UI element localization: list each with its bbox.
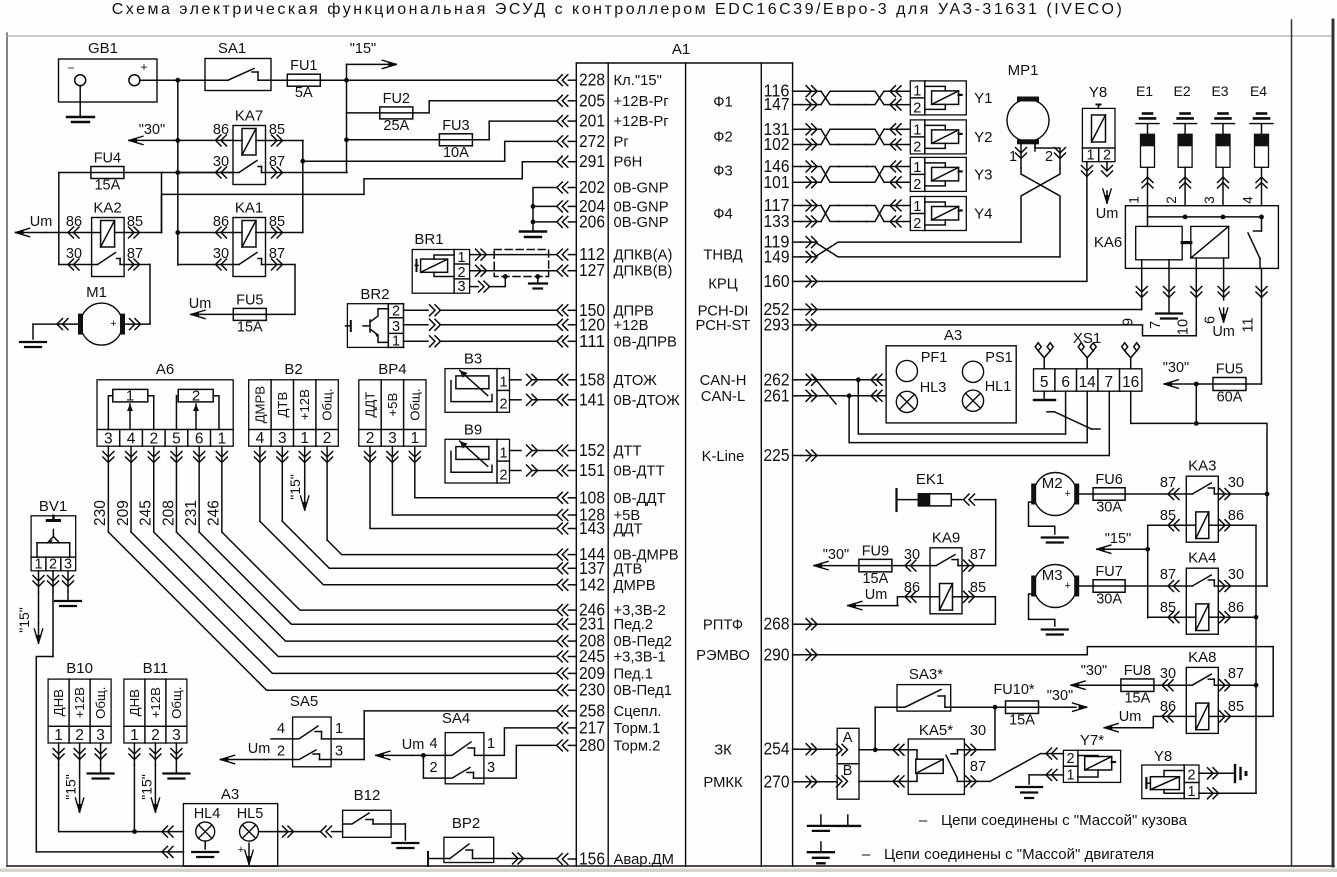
svg-text:E4: E4 (1250, 83, 1267, 99)
svg-text:15А: 15А (862, 571, 888, 587)
svg-text:152: 152 (579, 440, 605, 460)
svg-text:86: 86 (1160, 699, 1176, 715)
svg-text:2: 2 (429, 760, 437, 776)
svg-text:1: 1 (54, 727, 63, 744)
svg-text:87: 87 (970, 759, 986, 775)
svg-text:Общ.: Общ. (320, 388, 335, 420)
svg-text:143: 143 (579, 518, 605, 538)
svg-text:Кл."15": Кл."15" (614, 73, 662, 89)
svg-text:GB1: GB1 (88, 40, 118, 57)
svg-text:FU3: FU3 (442, 118, 469, 134)
svg-text:SA1: SA1 (218, 40, 246, 57)
svg-text:1: 1 (457, 250, 465, 266)
svg-text:"30": "30" (1081, 663, 1107, 679)
svg-text:206: 206 (579, 211, 605, 231)
svg-text:РСН-ST: РСН-ST (696, 318, 751, 334)
svg-text:1: 1 (410, 430, 419, 447)
svg-text:E3: E3 (1211, 83, 1228, 99)
svg-text:"15": "15" (350, 41, 376, 57)
svg-text:102: 102 (764, 134, 790, 154)
svg-text:270: 270 (764, 771, 790, 791)
svg-text:1: 1 (1066, 768, 1074, 784)
svg-text:FU5: FU5 (236, 292, 263, 308)
svg-text:XS1: XS1 (1073, 330, 1101, 347)
svg-text:3: 3 (1202, 196, 1217, 204)
svg-text:KA7: KA7 (235, 108, 263, 125)
svg-text:КРЦ: КРЦ (708, 277, 737, 293)
svg-text:147: 147 (764, 94, 790, 114)
svg-text:ТНВД: ТНВД (703, 248, 742, 264)
svg-text:141: 141 (579, 389, 605, 409)
svg-text:87: 87 (1160, 567, 1176, 583)
svg-text:M1: M1 (86, 284, 107, 301)
svg-text:BR2: BR2 (360, 286, 389, 303)
svg-text:MP1: MP1 (1008, 62, 1039, 79)
svg-text:268: 268 (764, 614, 790, 634)
svg-text:261: 261 (764, 385, 790, 405)
svg-text:25А: 25А (383, 118, 409, 134)
svg-text:245: 245 (138, 500, 155, 526)
svg-text:3: 3 (104, 431, 113, 448)
svg-text:Um: Um (1212, 324, 1235, 340)
svg-text:Сцепл.: Сцепл. (614, 704, 662, 720)
svg-text:+12В: +12В (614, 318, 649, 334)
svg-text:158: 158 (579, 369, 605, 389)
svg-text:SA3*: SA3* (909, 666, 943, 683)
svg-text:228: 228 (579, 70, 605, 90)
svg-text:"30": "30" (823, 547, 849, 563)
svg-text:2: 2 (149, 431, 158, 448)
svg-text:142: 142 (579, 574, 605, 594)
svg-text:KA8: KA8 (1188, 649, 1216, 666)
svg-text:BP2: BP2 (452, 815, 480, 832)
svg-text:HL4: HL4 (194, 806, 221, 822)
svg-text:ДДТ: ДДТ (363, 392, 378, 418)
svg-text:CAN-L: CAN-L (701, 389, 745, 405)
svg-text:B2: B2 (284, 361, 302, 378)
svg-text:230: 230 (92, 500, 109, 526)
svg-text:ДНВ: ДНВ (51, 689, 66, 716)
svg-text:РПТФ: РПТФ (703, 618, 743, 634)
svg-text:Um: Um (1096, 206, 1119, 222)
svg-text:6: 6 (195, 431, 204, 448)
svg-text:4: 4 (429, 736, 437, 752)
svg-text:Um: Um (189, 296, 212, 312)
svg-text:K-Line: K-Line (702, 449, 745, 465)
svg-text:ДПКВ(А): ДПКВ(А) (614, 248, 673, 264)
svg-text:3: 3 (278, 430, 287, 447)
svg-text:2: 2 (499, 397, 507, 413)
svg-text:2: 2 (913, 177, 921, 193)
svg-text:Общ.: Общ. (93, 687, 108, 719)
svg-text:87: 87 (970, 547, 986, 563)
svg-text:A6: A6 (156, 361, 174, 378)
svg-text:230: 230 (579, 680, 605, 700)
svg-text:Пед.1: Пед.1 (614, 666, 654, 682)
svg-text:0В-Пед2: 0В-Пед2 (614, 634, 672, 650)
svg-text:ДМРВ: ДМРВ (252, 386, 267, 424)
svg-text:2: 2 (323, 430, 332, 447)
svg-text:"15": "15" (63, 774, 79, 800)
svg-text:FU4: FU4 (94, 151, 121, 167)
svg-text:11: 11 (1241, 317, 1257, 332)
svg-text:+: + (1064, 488, 1070, 500)
svg-text:291: 291 (579, 151, 605, 171)
svg-text:4: 4 (256, 430, 265, 447)
svg-text:KA5*: KA5* (919, 722, 953, 739)
svg-text:PS1: PS1 (985, 350, 1012, 366)
svg-text:2: 2 (499, 467, 507, 483)
svg-text:KA9: KA9 (932, 529, 960, 546)
svg-text:Y7*: Y7* (1080, 732, 1104, 749)
svg-text:Рг: Рг (614, 134, 629, 150)
svg-text:0В-ДПРВ: 0В-ДПРВ (614, 334, 678, 350)
svg-text:Um: Um (865, 587, 888, 603)
svg-text:E1: E1 (1136, 83, 1153, 99)
svg-text:3: 3 (457, 279, 465, 295)
svg-text:KA3: KA3 (1188, 458, 1216, 475)
svg-text:30: 30 (970, 723, 986, 739)
svg-text:BR1: BR1 (414, 231, 443, 248)
svg-text:3: 3 (96, 727, 105, 744)
svg-text:2: 2 (913, 139, 921, 155)
svg-text:15А: 15А (1009, 712, 1035, 728)
svg-text:202: 202 (579, 177, 605, 197)
svg-text:+12В: +12В (297, 389, 312, 420)
svg-text:15А: 15А (1124, 690, 1150, 706)
svg-text:Торм.1: Торм.1 (614, 721, 661, 737)
svg-text:3: 3 (388, 430, 397, 447)
svg-text:0В-GNP: 0В-GNP (614, 181, 669, 197)
svg-text:Um: Um (248, 741, 271, 757)
svg-text:FU6: FU6 (1095, 472, 1122, 488)
svg-text:246: 246 (206, 500, 223, 526)
svg-text:5: 5 (172, 431, 181, 448)
svg-text:2: 2 (151, 727, 160, 744)
svg-text:FU9: FU9 (862, 543, 889, 559)
svg-text:30: 30 (66, 246, 82, 262)
svg-text:+12В: +12В (148, 687, 163, 718)
svg-text:1: 1 (1187, 784, 1195, 800)
svg-text:1: 1 (1009, 149, 1017, 165)
svg-text:M3: M3 (1042, 567, 1063, 584)
svg-text:"15": "15" (138, 774, 154, 800)
svg-text:B3: B3 (464, 351, 482, 368)
svg-text:Ф2: Ф2 (713, 130, 732, 146)
svg-text:87: 87 (1228, 666, 1244, 682)
svg-text:208: 208 (160, 500, 177, 526)
svg-text:Схема электрическая функцион: Схема электрическая функциональная ЭСУД … (112, 1, 1125, 18)
svg-text:PF1: PF1 (921, 350, 948, 366)
svg-text:101: 101 (764, 172, 790, 192)
svg-text:+: + (1064, 580, 1070, 592)
svg-text:1: 1 (218, 431, 227, 448)
svg-text:Y2: Y2 (974, 129, 992, 146)
svg-text:225: 225 (764, 445, 790, 465)
svg-text:E2: E2 (1174, 83, 1191, 99)
svg-text:SA5: SA5 (290, 693, 318, 710)
svg-text:2: 2 (75, 727, 84, 744)
svg-text:HL5: HL5 (237, 806, 264, 822)
svg-text:Торм.2: Торм.2 (614, 738, 661, 754)
svg-text:"15": "15" (1105, 531, 1131, 547)
svg-text:+5В: +5В (385, 393, 400, 417)
svg-text:BP4: BP4 (378, 361, 406, 378)
svg-text:"30": "30" (139, 122, 165, 138)
svg-text:3: 3 (172, 727, 181, 744)
svg-text:ЗК: ЗК (714, 743, 732, 759)
svg-text:+: + (140, 60, 147, 74)
svg-text:86: 86 (1228, 508, 1244, 524)
svg-text:FU7: FU7 (1095, 564, 1122, 580)
svg-text:"30": "30" (1047, 688, 1073, 704)
svg-text:1: 1 (126, 388, 134, 405)
svg-text:2: 2 (1164, 196, 1179, 204)
svg-text:KA4: KA4 (1188, 550, 1216, 567)
svg-text:1: 1 (913, 83, 921, 99)
svg-text:РЭМВО: РЭМВО (696, 648, 750, 664)
svg-text:86: 86 (904, 580, 920, 596)
svg-text:2: 2 (1187, 768, 1195, 784)
svg-text:4: 4 (1241, 196, 1256, 204)
svg-text:ДПКВ(В): ДПКВ(В) (614, 264, 673, 280)
svg-text:FU8: FU8 (1124, 663, 1151, 679)
svg-text:2: 2 (1066, 751, 1074, 767)
svg-text:2: 2 (192, 388, 200, 405)
svg-text:KA1: KA1 (235, 200, 263, 217)
svg-text:160: 160 (764, 271, 790, 291)
svg-text:2: 2 (913, 100, 921, 116)
svg-text:156: 156 (579, 849, 605, 869)
svg-text:0В-ДТОЖ: 0В-ДТОЖ (614, 393, 681, 409)
svg-text:7: 7 (1104, 374, 1113, 391)
svg-text:ДТОЖ: ДТОЖ (614, 373, 658, 389)
svg-text:Um: Um (1119, 709, 1142, 725)
svg-text:85: 85 (1160, 508, 1176, 524)
svg-text:А: А (843, 730, 853, 746)
svg-text:Y1: Y1 (974, 90, 992, 107)
svg-text:ДНВ: ДНВ (127, 689, 142, 716)
svg-text:231: 231 (183, 500, 200, 526)
svg-text:+12В-Рг: +12В-Рг (614, 114, 669, 130)
svg-text:2: 2 (392, 304, 400, 320)
svg-text:4: 4 (277, 721, 285, 737)
svg-text:A3: A3 (221, 786, 239, 803)
svg-text:A1: A1 (672, 41, 690, 58)
svg-text:"15": "15" (16, 607, 32, 633)
svg-text:Ф3: Ф3 (713, 164, 732, 180)
svg-text:15А: 15А (94, 178, 120, 194)
svg-text:3: 3 (335, 744, 343, 760)
svg-text:280: 280 (579, 735, 605, 755)
svg-text:0В-GNP: 0В-GNP (614, 215, 669, 231)
svg-text:B12: B12 (354, 787, 381, 804)
svg-text:Ф1: Ф1 (713, 95, 732, 111)
svg-text:FU2: FU2 (383, 91, 410, 107)
svg-text:ДМРВ: ДМРВ (614, 578, 656, 594)
svg-text:149: 149 (764, 246, 790, 266)
svg-text:ДТВ: ДТВ (275, 392, 290, 418)
svg-text:16: 16 (1122, 374, 1139, 391)
svg-text:86: 86 (66, 214, 82, 230)
svg-text:Um: Um (30, 214, 53, 230)
svg-text:6: 6 (1061, 374, 1070, 391)
svg-text:111: 111 (579, 331, 605, 351)
svg-text:2: 2 (913, 216, 921, 232)
svg-text:Y3: Y3 (974, 166, 992, 183)
svg-text:Y8: Y8 (1154, 748, 1172, 765)
svg-text:1: 1 (392, 334, 400, 350)
svg-text:+: + (110, 318, 116, 330)
svg-text:HL1: HL1 (985, 379, 1012, 395)
svg-text:85: 85 (1228, 699, 1244, 715)
svg-text:+12В: +12В (72, 687, 87, 718)
svg-text:SA4: SA4 (442, 710, 470, 727)
svg-text:+12В-Рг: +12В-Рг (614, 94, 669, 110)
svg-text:209: 209 (115, 500, 132, 526)
svg-text:1: 1 (499, 375, 507, 391)
svg-text:Y8: Y8 (1089, 84, 1107, 101)
svg-text:РМКК: РМКК (703, 775, 743, 791)
svg-text:Цепи соединены с "Массой" кузо: Цепи соединены с "Массой" кузова (941, 812, 1188, 829)
svg-text:–: – (862, 846, 871, 863)
svg-text:5А: 5А (295, 85, 313, 101)
svg-text:85: 85 (1160, 600, 1176, 616)
svg-text:0В-GNP: 0В-GNP (614, 199, 669, 215)
svg-text:−: − (67, 61, 74, 75)
svg-text:–: – (919, 812, 928, 829)
svg-text:Авар.ДМ: Авар.ДМ (614, 852, 674, 868)
svg-text:Ф4: Ф4 (713, 207, 732, 223)
svg-text:FU5: FU5 (1216, 362, 1243, 378)
svg-text:A3: A3 (944, 327, 962, 344)
svg-text:B11: B11 (143, 660, 169, 677)
svg-text:FU1: FU1 (290, 58, 317, 74)
svg-text:30А: 30А (1096, 499, 1122, 515)
svg-text:15А: 15А (237, 319, 263, 335)
svg-text:Р6Н: Р6Н (614, 155, 643, 171)
svg-text:87: 87 (1160, 475, 1176, 491)
svg-text:2: 2 (1045, 149, 1053, 165)
svg-text:1: 1 (487, 736, 495, 752)
svg-text:Общ.: Общ. (407, 388, 422, 420)
svg-text:FU10*: FU10* (993, 682, 1034, 698)
svg-text:CAN-H: CAN-H (700, 373, 747, 389)
svg-text:30А: 30А (1096, 591, 1122, 607)
svg-text:7: 7 (1148, 321, 1164, 329)
svg-text:1: 1 (130, 727, 139, 744)
svg-text:133: 133 (764, 211, 790, 231)
svg-text:272: 272 (579, 131, 605, 151)
svg-text:2: 2 (277, 744, 285, 760)
svg-text:14: 14 (1079, 374, 1097, 391)
svg-text:4: 4 (127, 431, 136, 448)
svg-text:86: 86 (1228, 600, 1244, 616)
svg-text:Цепи соединены с "Массой" двиг: Цепи соединены с "Массой" двигателя (884, 846, 1154, 863)
svg-text:HL3: HL3 (920, 380, 947, 396)
svg-text:2: 2 (366, 430, 375, 447)
svg-text:M2: M2 (1042, 475, 1063, 492)
svg-text:1: 1 (300, 430, 309, 447)
svg-text:60А: 60А (1217, 390, 1243, 406)
svg-text:3: 3 (487, 760, 495, 776)
svg-text:201: 201 (579, 111, 605, 131)
svg-text:+: + (238, 844, 244, 856)
svg-text:"30": "30" (1163, 360, 1189, 376)
svg-text:254: 254 (764, 739, 790, 759)
svg-text:10А: 10А (443, 145, 469, 161)
svg-text:127: 127 (579, 260, 605, 280)
svg-text:0В-ДТТ: 0В-ДТТ (614, 464, 665, 480)
svg-text:1: 1 (499, 445, 507, 461)
svg-text:6: 6 (1203, 316, 1219, 324)
svg-text:1: 1 (913, 199, 921, 215)
svg-text:+3,3В-1: +3,3В-1 (614, 650, 666, 666)
svg-text:1: 1 (335, 721, 343, 737)
svg-text:30: 30 (1228, 475, 1244, 491)
svg-text:KA2: KA2 (93, 200, 121, 217)
svg-text:290: 290 (764, 644, 790, 664)
svg-text:151: 151 (579, 460, 605, 480)
svg-text:Пед.2: Пед.2 (614, 617, 654, 633)
svg-text:B10: B10 (66, 660, 93, 677)
svg-text:0В-Пед1: 0В-Пед1 (614, 683, 672, 699)
svg-text:1: 1 (1086, 148, 1094, 164)
svg-text:5: 5 (1040, 374, 1049, 391)
svg-text:Общ.: Общ. (169, 687, 184, 719)
svg-text:1: 1 (1127, 196, 1142, 204)
svg-text:BV1: BV1 (39, 498, 67, 515)
svg-text:ДДТ: ДДТ (614, 522, 643, 538)
svg-text:293: 293 (764, 314, 790, 334)
svg-text:EK1: EK1 (916, 471, 944, 488)
svg-text:KA6: KA6 (1094, 234, 1122, 251)
svg-text:205: 205 (579, 90, 605, 110)
svg-text:Y4: Y4 (974, 206, 992, 223)
svg-text:ДТТ: ДТТ (614, 444, 642, 460)
svg-text:B9: B9 (464, 421, 482, 438)
svg-text:1: 1 (913, 160, 921, 176)
svg-text:0В-ДДТ: 0В-ДДТ (614, 491, 666, 507)
svg-text:30: 30 (904, 547, 920, 563)
svg-text:Um: Um (402, 737, 425, 753)
svg-text:30: 30 (1228, 567, 1244, 583)
svg-text:ДТВ: ДТВ (614, 561, 643, 577)
svg-text:10: 10 (1175, 319, 1191, 335)
svg-text:1: 1 (913, 122, 921, 138)
svg-text:В: В (843, 763, 853, 779)
